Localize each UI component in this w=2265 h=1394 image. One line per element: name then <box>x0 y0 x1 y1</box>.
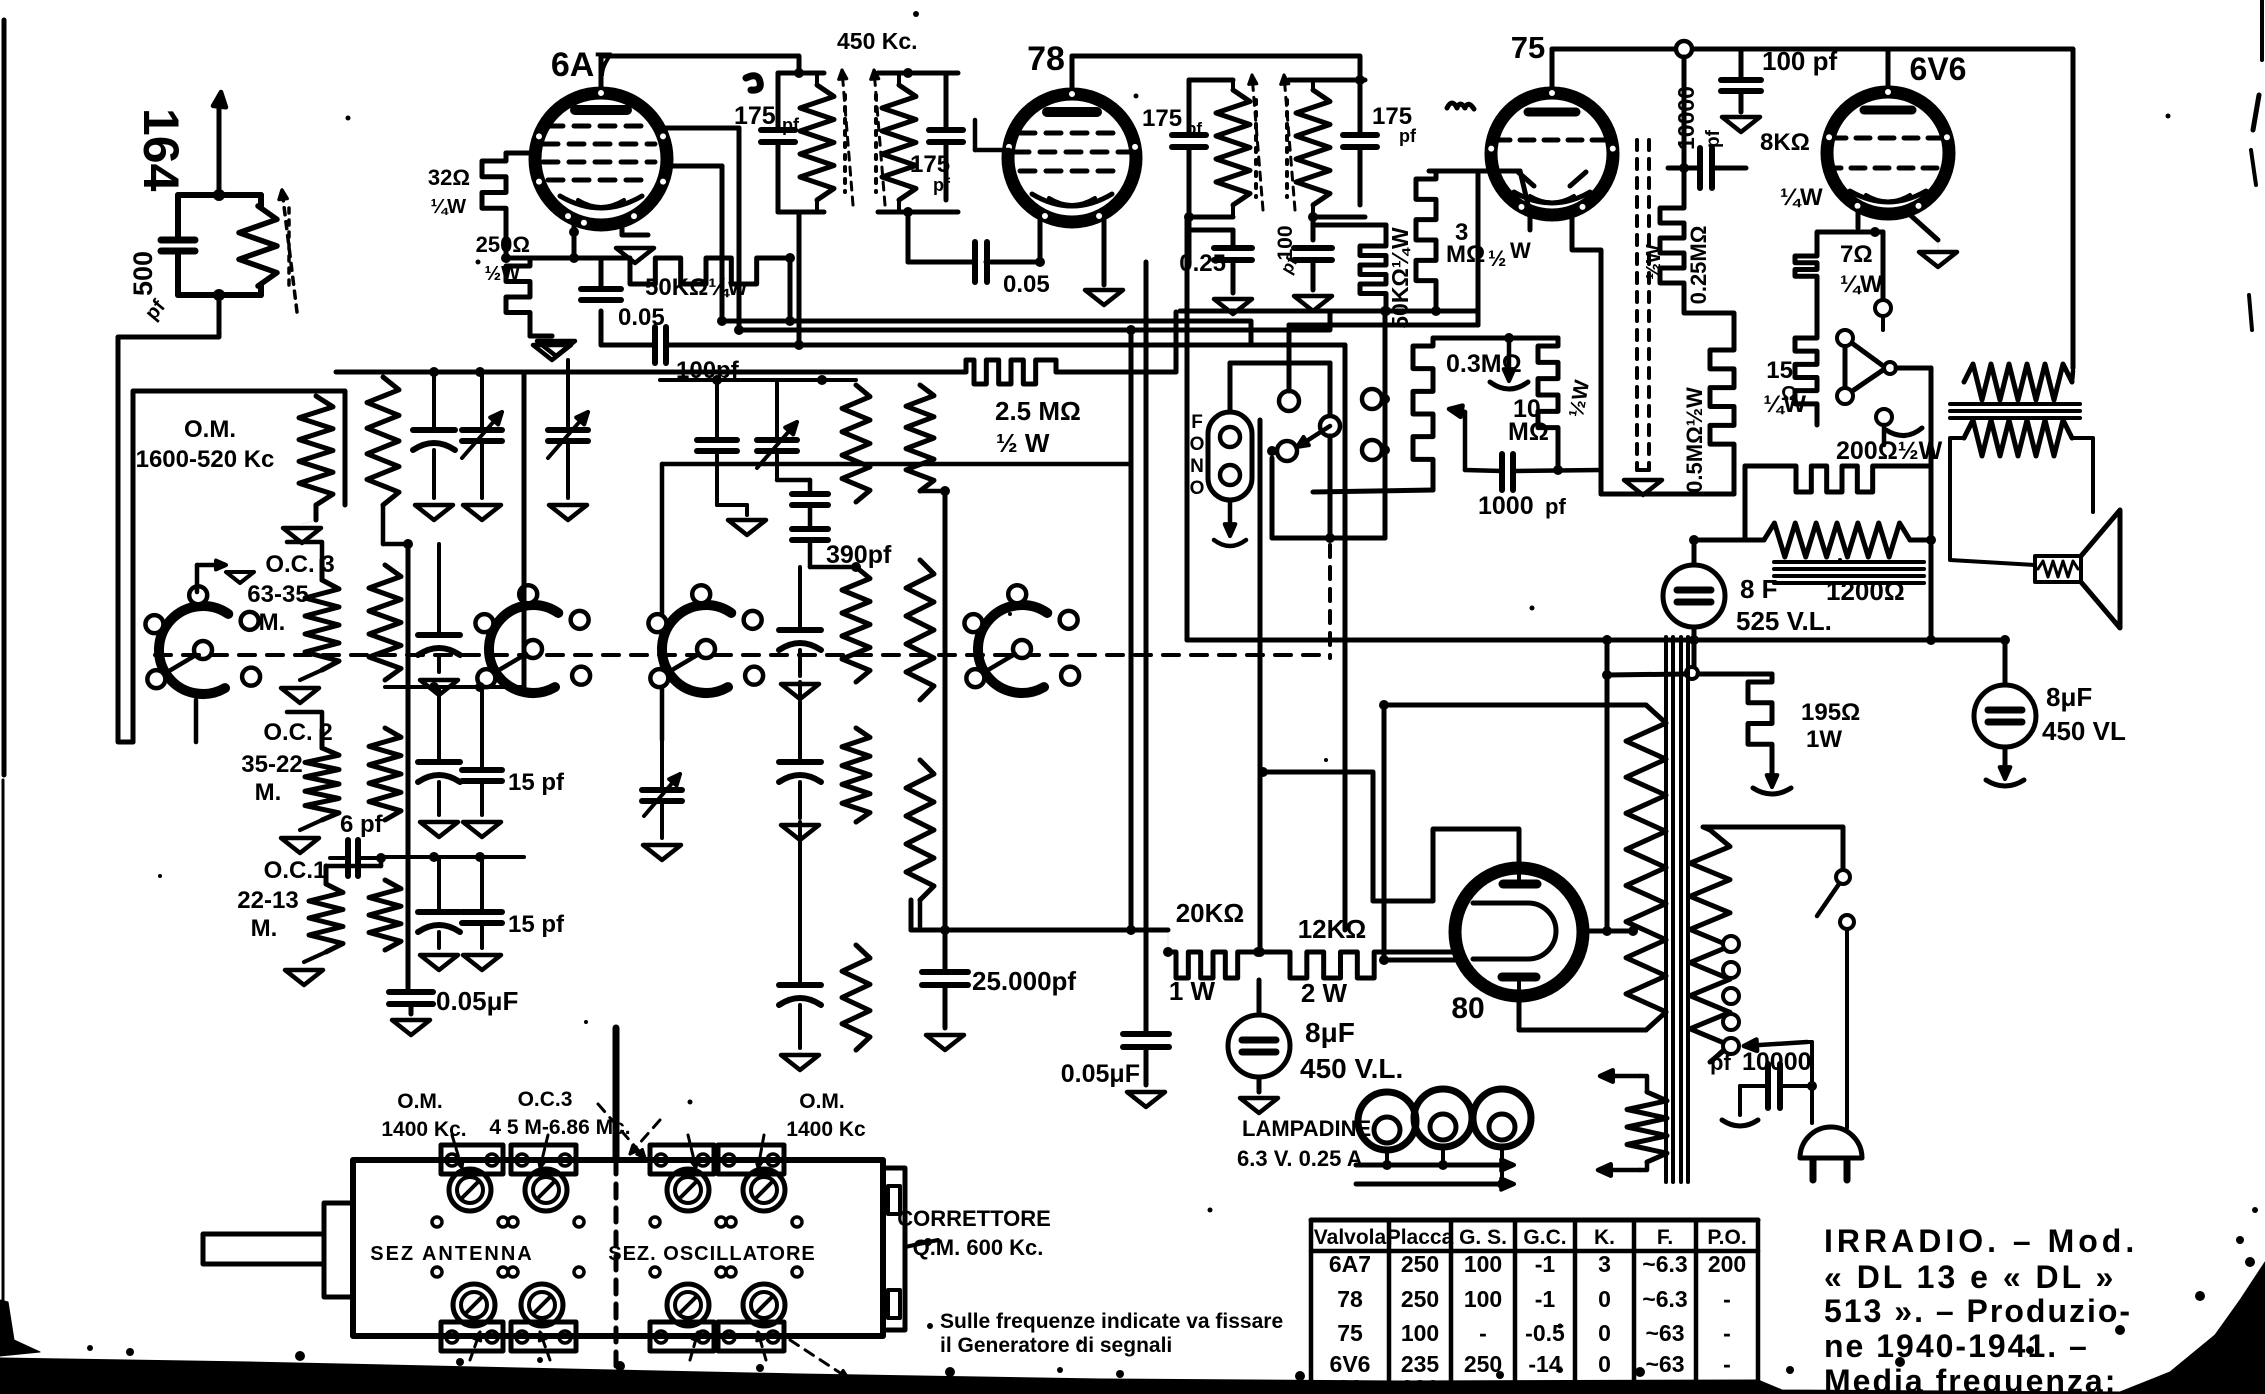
wire 0.3M bottom left <box>1313 490 1433 492</box>
svg-text:6 pf: 6 pf <box>340 811 384 838</box>
capacitor 1000pf <box>1499 454 1505 490</box>
capacitor 390pf series <box>777 478 810 483</box>
dial dashed arrows <box>598 1104 645 1158</box>
resistor 200ohm halfW <box>1788 466 1896 492</box>
svg-text:O.M.: O.M. <box>799 1090 845 1113</box>
svg-text:-14: -14 <box>1528 1351 1561 1377</box>
svg-text:G.C.: G.C. <box>1523 1226 1566 1249</box>
wire 250ohm bottom to ground <box>530 334 552 339</box>
lamp 3 <box>1473 1089 1531 1147</box>
svg-text:M.: M. <box>255 779 282 806</box>
IF1 primary coil <box>800 85 834 200</box>
pot bottom circle <box>1876 409 1892 425</box>
svg-text:525 V.L.: 525 V.L. <box>1736 606 1832 636</box>
svg-text:Media frequenza:: Media frequenza: <box>1824 1363 2117 1394</box>
svg-text:SEZ. OSCILLATORE: SEZ. OSCILLATORE <box>608 1243 816 1265</box>
svg-text:pf: pf <box>1399 126 1417 146</box>
padder cap C <box>418 759 460 765</box>
osc2 coil B <box>842 567 870 682</box>
wire OC1 node <box>379 858 384 866</box>
table grid <box>1309 1220 1314 1394</box>
resistor 7ohm quarterW <box>1795 248 1817 291</box>
tube 80 envelope <box>1455 868 1583 996</box>
svg-text:MΩ: MΩ <box>1508 418 1549 446</box>
svg-text:pf: pf <box>1545 494 1566 519</box>
wire 7ohm top <box>1817 232 1883 248</box>
avc vertical x1385 <box>1383 311 1388 538</box>
svg-text:63-35: 63-35 <box>247 581 308 608</box>
bus y345 <box>799 343 1345 348</box>
terminal block O2b <box>718 1322 784 1351</box>
switch contact a <box>1279 391 1299 411</box>
svg-text:pf: pf <box>1710 1050 1731 1075</box>
capacitor 0.05 78 cathode <box>908 260 975 265</box>
capacitor 0.05uF osc <box>389 989 433 995</box>
mains switch <box>1836 870 1850 884</box>
capacitor 500pf <box>161 237 195 244</box>
switch lever <box>1302 426 1330 444</box>
node grid return <box>501 253 511 263</box>
osc2 fixed cap <box>697 437 737 443</box>
svg-text:O.C.1: O.C.1 <box>264 857 327 884</box>
resistor 32ohm 1/4W <box>482 153 506 232</box>
tube 75 pin dots <box>1548 89 1557 98</box>
svg-text:0.5MΩ½W: 0.5MΩ½W <box>1682 387 1707 493</box>
svg-text:~6.3: ~6.3 <box>1642 1286 1687 1312</box>
svg-text:0: 0 <box>1598 1351 1611 1377</box>
resistor 3M half W <box>1416 171 1436 309</box>
screw holes <box>432 1217 442 1227</box>
svg-text:78: 78 <box>1337 1286 1363 1312</box>
svg-text:513 ». – Produzio-: 513 ». – Produzio- <box>1824 1293 2132 1329</box>
terminal block O2 <box>718 1145 784 1174</box>
svg-text:100 pf: 100 pf <box>1762 46 1837 76</box>
svg-text:¼W: ¼W <box>1840 271 1883 298</box>
FONO ground <box>1228 500 1233 534</box>
svg-text:3: 3 <box>1598 1251 1611 1277</box>
FONO stem up <box>1228 363 1233 412</box>
svg-text:N: N <box>1190 456 1204 477</box>
trimmer O3 <box>667 1284 709 1326</box>
osc2 mid trimmer <box>642 787 682 793</box>
wire cathode bus <box>506 256 622 261</box>
glyph curl IF2 <box>1447 103 1474 109</box>
svg-text:2.5 MΩ: 2.5 MΩ <box>995 396 1081 426</box>
wire x1478 down <box>1476 171 1481 325</box>
wire 78 plate bus to IF2 <box>1072 56 1360 80</box>
chassis side panel <box>883 1168 905 1330</box>
electrolytic 8uF 450VL right <box>1974 685 2036 747</box>
svg-text:25.000pf: 25.000pf <box>972 966 1076 996</box>
padder cap A <box>413 427 455 433</box>
capacitor 0.05 cathode <box>581 286 621 292</box>
svg-text:½ W: ½ W <box>996 428 1050 458</box>
IF2 trim arrows dashed <box>1252 75 1263 210</box>
svg-text:1400 Kc: 1400 Kc <box>786 1118 866 1141</box>
osc coil B <box>369 565 401 680</box>
power primary winding <box>1626 705 1666 1030</box>
wire switch to plug <box>1845 929 1849 1128</box>
tube 75 pins down <box>1528 213 1533 230</box>
svg-text:« DL 13 e « DL »: « DL 13 e « DL » <box>1824 1259 2116 1295</box>
electrolytic 8F 525VL <box>1663 565 1725 627</box>
chassis divider solid <box>613 1028 620 1160</box>
svg-text:80: 80 <box>1451 992 1484 1025</box>
switch rotor down <box>1328 436 1333 538</box>
wire y494 <box>1601 492 1734 497</box>
power secondary winding <box>1690 830 1730 1062</box>
switch wire c down <box>1270 458 1275 538</box>
resistor 0.25M half W <box>1660 200 1684 306</box>
gang dash to band switches <box>1328 545 1332 658</box>
capacitor 10000pf mains <box>1765 1064 1771 1108</box>
svg-text:6V6: 6V6 <box>1330 1351 1371 1377</box>
osc2 coil C <box>842 728 870 822</box>
capacitor 0.05uF audio <box>1123 1031 1169 1037</box>
output transformer secondary <box>1964 420 2072 456</box>
tube 80 filament loop <box>1473 903 1556 959</box>
tube 75 plate bar <box>1528 108 1576 117</box>
svg-text:450 VL: 450 VL <box>2042 716 2126 746</box>
tube 80 bottom plate wiring <box>1517 996 1522 1030</box>
osc2 coil D <box>842 945 870 1050</box>
OC1 coil <box>309 884 343 952</box>
IF1 primary stem down <box>797 212 802 345</box>
wire connector to coupling <box>1682 57 1687 168</box>
svg-text:6A7: 6A7 <box>551 46 613 84</box>
pot top contact wire <box>1881 308 1885 330</box>
svg-text:~6.3: ~6.3 <box>1642 1251 1687 1277</box>
IF2 core dashed <box>1254 100 1258 197</box>
svg-text:-: - <box>1723 1286 1731 1312</box>
svg-text:1000: 1000 <box>1478 492 1534 520</box>
bus y321 <box>722 321 1251 345</box>
trimmer O4 <box>743 1284 785 1326</box>
tube 6A7 left pin wire <box>506 151 538 156</box>
antenna trimmer dashed arrow <box>282 190 297 312</box>
svg-text:7Ω: 7Ω <box>1840 241 1873 268</box>
switch contact d <box>1362 389 1382 409</box>
wire cap down to plug <box>1810 1086 1814 1123</box>
tube 78 pins down <box>1038 219 1043 262</box>
svg-text:0.05: 0.05 <box>1003 271 1050 298</box>
svg-text:½W: ½W <box>484 263 520 285</box>
svg-text:O.C.3: O.C.3 <box>518 1088 573 1111</box>
wire pot bottom <box>1882 425 1887 445</box>
svg-text:4 5 M-6.86 Mc.: 4 5 M-6.86 Mc. <box>489 1116 630 1139</box>
node base 3M <box>1381 306 1391 316</box>
wire x945 down <box>943 491 948 972</box>
trimmer A1 <box>449 1169 491 1211</box>
IF2 secondary coil <box>1296 90 1330 205</box>
svg-text:F: F <box>1191 412 1203 433</box>
svg-text:il Generatore di segnali: il Generatore di segnali <box>940 1334 1172 1357</box>
svg-text:¼W: ¼W <box>1780 184 1823 211</box>
tube 78 plate bar <box>1047 107 1097 117</box>
svg-text:450 V.L.: 450 V.L. <box>1300 1053 1403 1084</box>
bus y330 <box>739 311 1330 330</box>
antenna lead-in arrow <box>217 100 222 195</box>
heater winding <box>1627 1092 1667 1162</box>
tube 6V6 top pin <box>1886 49 1891 92</box>
electrolytic 8uF mid <box>1228 1015 1290 1077</box>
capacitor 25000pf <box>922 969 968 975</box>
osc2 top wire <box>660 378 856 382</box>
wire 12K corner to 80 <box>1399 950 1457 955</box>
svg-text:22-13: 22-13 <box>237 887 298 914</box>
svg-text:500: 500 <box>128 251 158 296</box>
svg-text:0.05μF: 0.05μF <box>436 986 518 1016</box>
osc2 coil <box>842 385 870 502</box>
svg-text:250: 250 <box>1401 1251 1439 1277</box>
tube 6V6 pin dots <box>1884 88 1893 97</box>
bus vertical x1260 <box>1258 420 1263 952</box>
IF1 secondary cap 175pf <box>944 73 949 130</box>
top wire 0.3M-10M <box>1433 336 1558 341</box>
wire 6A7 plate bus to IF1 <box>601 56 799 73</box>
wire cap to tap arrow <box>1810 1042 1814 1086</box>
svg-text:-1: -1 <box>1535 1286 1556 1312</box>
chassis main box <box>353 1160 883 1336</box>
svg-text:IRRADIO. – Mod.: IRRADIO. – Mod. <box>1824 1223 2138 1259</box>
svg-text:12KΩ: 12KΩ <box>1298 914 1367 944</box>
IF1 primary cap 175pf <box>776 73 781 130</box>
node 50K right <box>785 253 795 263</box>
svg-text:100: 100 <box>1464 1286 1502 1312</box>
speaker cone <box>2081 510 2120 628</box>
wire B+ bus y540 <box>1694 538 1735 543</box>
wire IF2 feed corner <box>1185 217 1190 640</box>
band switch S4 <box>978 605 1047 693</box>
terminal block A1 <box>441 1145 503 1174</box>
svg-text:8μF: 8μF <box>1305 1017 1355 1048</box>
resistor 50K 1/4W boxy <box>622 258 790 284</box>
tube 6A7 pin wire upper <box>662 126 739 131</box>
wire 32ohm to cathode node <box>504 232 509 258</box>
IF1 secondary stem down <box>906 212 911 262</box>
trimmer pointer arrows <box>452 1135 462 1168</box>
trimmer cap A <box>462 427 502 433</box>
svg-text:200: 200 <box>1708 1251 1746 1277</box>
tube 6A7 grid dashes <box>548 124 647 129</box>
filter choke core <box>1774 560 1924 564</box>
svg-text:450 Kc.: 450 Kc. <box>837 28 918 54</box>
svg-text:8μF: 8μF <box>2046 682 2092 712</box>
tube 78 cathode arc <box>1032 194 1112 206</box>
ground 10000pf <box>1738 1086 1742 1115</box>
svg-text:1W: 1W <box>1806 726 1842 753</box>
tube 75 cathode arc <box>1514 192 1590 203</box>
wire 6V6 plate to right bus <box>1888 49 2073 368</box>
svg-text:O: O <box>1190 478 1205 499</box>
svg-text:½: ½ <box>1488 246 1506 271</box>
wire 50K right down <box>788 258 793 321</box>
svg-text:32Ω: 32Ω <box>428 165 470 190</box>
capacitor 15pf lower <box>462 909 502 915</box>
svg-text:50KΩ¼w: 50KΩ¼w <box>645 274 747 301</box>
svg-text:O.M.: O.M. <box>184 416 236 443</box>
wire 200ohm ends <box>1745 464 1788 469</box>
svg-text:6.3 V. 0.25 A.: 6.3 V. 0.25 A. <box>1237 1146 1369 1171</box>
wire 8F top <box>1692 540 1697 565</box>
scan edge line left <box>2 20 7 775</box>
node antenna top <box>213 189 225 201</box>
tube 6V6 envelope <box>1827 92 1949 214</box>
svg-text:-: - <box>1723 1351 1731 1377</box>
svg-text:G. S.: G. S. <box>1459 1226 1507 1249</box>
tube 6A7 envelope <box>535 93 667 225</box>
osc2 cap B <box>779 627 821 633</box>
resistor 195ohm 1W <box>1748 674 1772 773</box>
IF1 box bottom <box>776 200 781 212</box>
OC3 coil <box>305 580 339 670</box>
scan band speckles <box>126 1348 134 1356</box>
osc coil A <box>367 377 399 505</box>
OC3 ground <box>300 670 322 680</box>
IF1 core dashed <box>843 95 847 192</box>
secondary taps <box>1723 936 1739 952</box>
vertical x1607 <box>1605 640 1610 931</box>
band switch S3 <box>662 605 731 693</box>
svg-text:78: 78 <box>1027 40 1065 78</box>
output transformer core <box>1950 402 2080 406</box>
scan right edge marks <box>2253 95 2259 130</box>
antenna coil box wires <box>178 192 261 198</box>
wiper arrow 0.3M <box>1463 412 1468 470</box>
capacitor 0.25 bypass <box>1214 245 1252 251</box>
svg-text:pf: pf <box>933 175 951 195</box>
tube 6V6 pins down <box>1856 211 1861 228</box>
terminal block A2b <box>511 1322 576 1351</box>
osc top wire <box>383 370 524 375</box>
osc3 coil C <box>906 760 934 900</box>
osc3 coil <box>906 385 934 491</box>
capacitor 100pf coupling <box>652 327 658 363</box>
wire osc col right side <box>522 372 527 687</box>
svg-text:-: - <box>1723 1320 1731 1346</box>
trimmer A4 <box>521 1284 563 1326</box>
chassis shaft <box>203 1234 324 1264</box>
heater arrow top <box>1640 1076 1647 1092</box>
svg-text:¼W: ¼W <box>430 196 466 218</box>
S1 wires <box>287 542 322 560</box>
svg-text:15 pf: 15 pf <box>508 911 565 938</box>
padder cap D <box>418 909 460 915</box>
svg-text:ne 1940-1941. –: ne 1940-1941. – <box>1824 1328 2089 1364</box>
scan bottom black band <box>0 1262 2265 1394</box>
tube 75 diode plates <box>1518 172 1534 186</box>
capacitor 15pf upper <box>462 767 502 773</box>
svg-text:Q.M. 600 Kc.: Q.M. 600 Kc. <box>913 1235 1044 1260</box>
svg-text:CORRETTORE: CORRETTORE <box>897 1206 1051 1231</box>
trimmer A3 <box>453 1284 495 1326</box>
IF2 secondary box <box>1289 78 1365 83</box>
capacitor 100pf agc <box>1294 245 1332 251</box>
node 0.25M bottom <box>1684 306 1734 342</box>
resistor 15ohm quarterW <box>1795 330 1817 425</box>
osc section2 wire <box>385 685 524 689</box>
tube 6V6 grid dashes <box>1832 136 1944 141</box>
tube 80 plate bar bottom <box>1502 973 1536 982</box>
svg-text:200Ω½W: 200Ω½W <box>1836 437 1943 465</box>
svg-text:0.25MΩ: 0.25MΩ <box>1686 226 1711 305</box>
ground mid <box>1507 338 1512 378</box>
svg-text:1 W: 1 W <box>1169 976 1216 1006</box>
wire osc left common <box>406 544 411 990</box>
svg-text:175: 175 <box>1142 105 1182 132</box>
padder cap B <box>418 632 460 638</box>
wire y705 to primary <box>1384 703 1646 708</box>
S1 ground arrow <box>195 565 200 592</box>
tube 6A7 cathode pin and ground <box>620 222 625 235</box>
IF2 box bottom left <box>1187 205 1192 217</box>
svg-text:M.: M. <box>259 609 286 636</box>
svg-text:O.M.: O.M. <box>397 1090 443 1113</box>
tube 78 pin dots <box>1068 90 1077 99</box>
OC2 coil <box>305 748 339 820</box>
svg-text:pf: pf <box>1703 129 1724 148</box>
terminal block O1b <box>650 1322 714 1351</box>
bus y930 <box>911 928 1168 933</box>
wire 75 top bus <box>1552 47 1887 52</box>
svg-text:O: O <box>1190 434 1205 455</box>
svg-text:Placca: Placca <box>1387 1226 1454 1249</box>
tube 6A7 pin dots <box>597 89 606 98</box>
OC2 ground <box>300 820 322 830</box>
correttore pointer <box>905 1240 938 1247</box>
tube 6V6 plate bar <box>1864 106 1912 115</box>
osc coil D <box>369 880 401 950</box>
IF1 can top wire <box>778 71 824 76</box>
svg-text:250Ω: 250Ω <box>476 232 530 257</box>
svg-text:100: 100 <box>1401 1320 1439 1346</box>
resistor 50K quarterW vertical <box>1360 238 1386 311</box>
svg-text:-: - <box>1479 1320 1487 1346</box>
bus y372 with 2.5M resistor <box>336 370 966 375</box>
svg-text:SEZ ANTENNA: SEZ ANTENNA <box>370 1243 533 1265</box>
osc section3 wire <box>379 855 524 859</box>
tube 78 top pin wire <box>1070 56 1075 94</box>
osc3 coil B <box>906 560 934 700</box>
secondary top to switch <box>1703 827 1843 868</box>
trimmer O1 <box>667 1169 709 1211</box>
scan speckles <box>913 11 919 17</box>
osc coil C <box>369 728 401 820</box>
svg-text:15: 15 <box>1766 357 1793 384</box>
resistor 0.3M <box>1413 338 1433 490</box>
resistor 250ohm 1/2W <box>506 258 530 336</box>
FONO jack contacts <box>1220 427 1240 447</box>
svg-text:K.: K. <box>1594 1226 1615 1249</box>
svg-text:LAMPADINE: LAMPADINE <box>1242 1116 1371 1141</box>
tube 78 envelope <box>1008 94 1136 222</box>
tube 6A7 cathode arc <box>560 196 642 208</box>
OC1 ground <box>304 952 326 962</box>
svg-text:15 pf: 15 pf <box>508 769 565 796</box>
IF1 secondary coil <box>882 85 916 200</box>
svg-text:0: 0 <box>1598 1320 1611 1346</box>
svg-text:~63: ~63 <box>1645 1351 1684 1377</box>
svg-text:½W: ½W <box>1643 244 1665 280</box>
switch contact c <box>1277 441 1297 461</box>
wire OM coil bottom <box>314 505 319 520</box>
OM antenna coil <box>299 396 333 505</box>
dashed AVC lines <box>1635 140 1639 470</box>
IF2 can top <box>1189 78 1233 83</box>
node antenna bottom <box>213 289 225 301</box>
capacitor 10000pf coupling <box>1697 148 1703 188</box>
band switch S1 <box>159 606 228 694</box>
